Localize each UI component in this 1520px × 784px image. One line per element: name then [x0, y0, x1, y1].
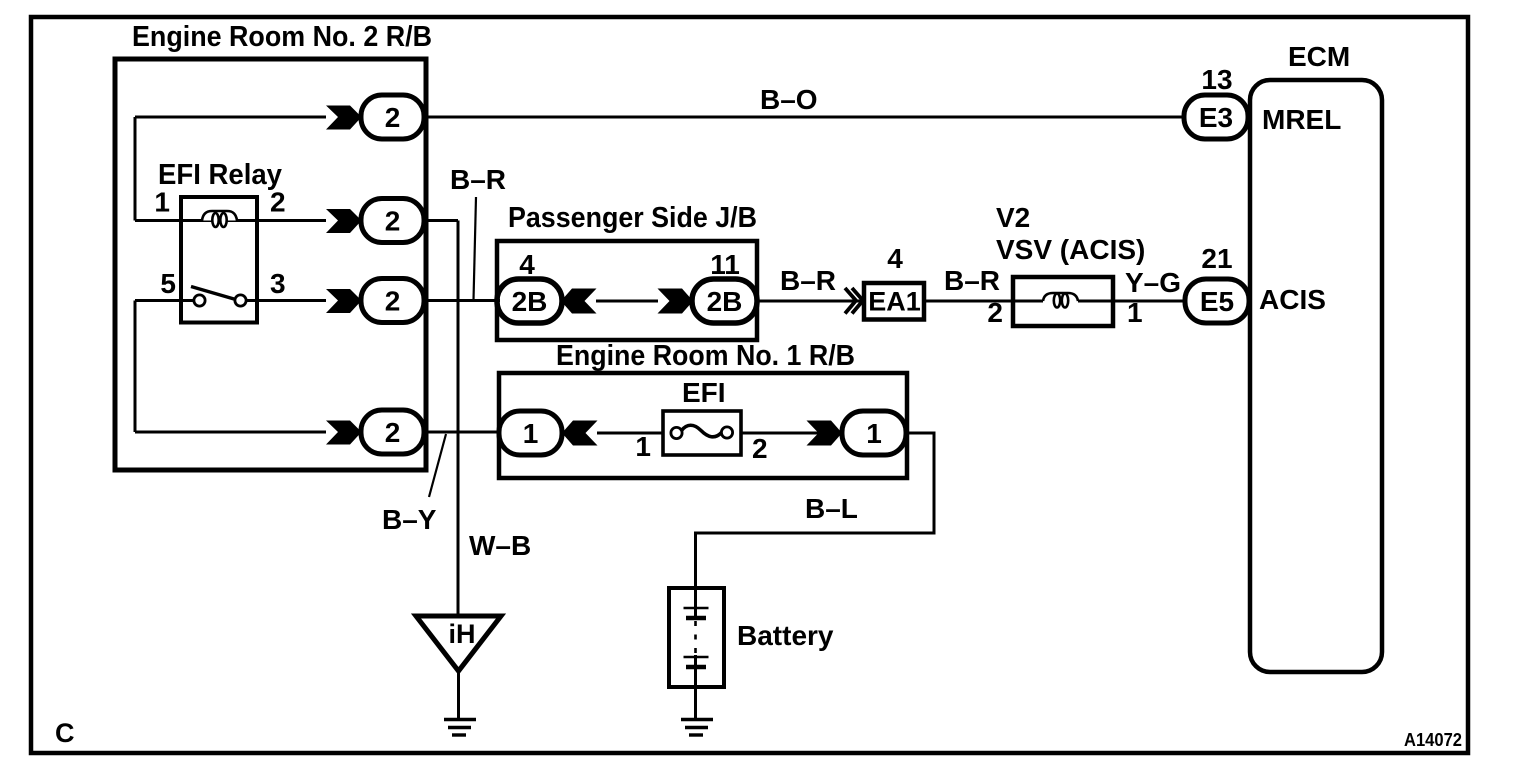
wire: row3 relay to connector — [257, 299, 326, 302]
VSV coil symbol — [1043, 293, 1078, 308]
svg-text:B–Y: B–Y — [382, 504, 437, 535]
wire: relay coil wire pin1-pin2 — [181, 219, 257, 222]
battery plate long bottom — [684, 656, 709, 659]
wire: triangle to ground — [457, 671, 460, 719]
connector arrow right (pointing right) — [658, 289, 694, 314]
battery dashed center link — [694, 621, 697, 654]
svg-text:iH: iH — [449, 619, 476, 649]
svg-text:Battery: Battery — [737, 620, 834, 651]
connector arrow row4 — [326, 421, 362, 445]
svg-text:B–O: B–O — [760, 84, 818, 115]
svg-text:2B: 2B — [707, 286, 743, 317]
relay coil symbol — [202, 211, 237, 227]
svg-text:V2: V2 — [996, 202, 1030, 233]
svg-text:Passenger Side J/B: Passenger Side J/B — [508, 202, 757, 234]
connector arrow right (pointing right) — [807, 421, 843, 446]
connector oval row1 pin 2 — [361, 95, 424, 139]
wire: relay pin5 stub inside — [181, 299, 194, 302]
wire: B-L net from oval 1 to battery — [696, 433, 935, 587]
wire: arrow to fuse — [597, 432, 663, 435]
battery plate long top — [684, 607, 709, 610]
relay U: EFI Relay box — [181, 197, 257, 323]
splice EA1 box — [864, 283, 924, 320]
wire: vertical from relay pin5 row to row4 — [134, 301, 137, 433]
svg-text:E3: E3 — [1199, 102, 1233, 133]
wire: row1 left segment inside R/B — [135, 116, 326, 119]
fuse EFI box — [663, 411, 741, 455]
svg-text:B–L: B–L — [805, 493, 858, 524]
battery bottom lead to ground — [694, 655, 697, 719]
connector oval row2 pin 2 — [361, 199, 424, 243]
relay switch blade — [191, 287, 234, 300]
svg-text:A14072: A14072 — [1404, 730, 1462, 750]
connector arrow row3 — [326, 289, 362, 313]
wire: row4 left segment — [135, 431, 326, 434]
svg-text:2: 2 — [270, 187, 286, 218]
svg-text:W–B: W–B — [469, 530, 531, 561]
svg-text:2B: 2B — [512, 286, 548, 317]
wire: vertical from row1 to relay pin1 — [134, 117, 137, 221]
junction block: Engine Room No. 2 R/B box — [115, 59, 426, 470]
ground symbol below battery — [681, 720, 713, 736]
connector oval 2B right — [692, 279, 757, 323]
battery plate thick lower — [686, 665, 706, 670]
wire: VSV internal right — [1078, 300, 1113, 303]
svg-text:11: 11 — [710, 249, 740, 280]
connector oval 2B left — [497, 279, 562, 323]
svg-text:5: 5 — [160, 268, 176, 299]
svg-text:Y–G: Y–G — [1125, 267, 1181, 298]
wire: row2 relay to connector — [257, 219, 326, 222]
connector oval E3 — [1184, 95, 1248, 139]
leader line for B-Y label — [429, 434, 446, 497]
wire: VSV internal left — [1013, 300, 1043, 303]
svg-text:B–R: B–R — [780, 265, 836, 296]
fuse element symbol — [671, 427, 682, 438]
svg-text:ACIS: ACIS — [1259, 284, 1326, 315]
svg-text:21: 21 — [1201, 243, 1232, 274]
svg-text:2: 2 — [385, 417, 401, 448]
svg-text:B–R: B–R — [944, 265, 1000, 296]
wire: EA1 to VSV — [924, 300, 1013, 303]
relay switch contact left — [194, 295, 205, 306]
wire: row3 oval to Passenger J/B — [424, 299, 500, 302]
svg-text:4: 4 — [887, 243, 903, 274]
svg-text:2: 2 — [752, 433, 768, 464]
solenoid valve V2 VSV (ACIS) box — [1013, 277, 1113, 326]
relay switch contact right — [235, 295, 246, 306]
junction block: Passenger Side J/B box — [497, 241, 757, 340]
connector oval row3 pin 2 — [361, 279, 424, 323]
leader line for B-R label — [474, 197, 477, 300]
svg-text:4: 4 — [519, 249, 535, 280]
wire: 2B to EA1 — [757, 300, 864, 303]
wire: relay pin1 feed — [135, 219, 181, 222]
wire: fuse to arrow — [741, 432, 842, 435]
svg-text:Engine Room No. 2 R/B: Engine Room No. 2 R/B — [132, 21, 432, 53]
wire: VSV to E5 — [1113, 300, 1186, 303]
ECM block rounded box — [1250, 80, 1382, 672]
svg-text:1: 1 — [635, 431, 651, 462]
svg-text:2: 2 — [385, 102, 401, 133]
svg-text:1: 1 — [866, 418, 882, 449]
connector oval 1 left — [499, 411, 562, 455]
svg-text:1: 1 — [523, 418, 539, 449]
wire: row4 oval to Engine Room No.1 R/B — [424, 431, 500, 434]
battery box — [669, 588, 724, 687]
svg-text:MREL: MREL — [1262, 104, 1341, 135]
battery internal: top lead — [694, 588, 697, 618]
wire: W-B vertical down to ground triangle — [457, 221, 460, 617]
wire: between 2B connectors — [596, 300, 658, 303]
svg-text:EFI Relay: EFI Relay — [158, 159, 282, 191]
connector oval row4 pin 2 — [361, 410, 424, 454]
connector arrow left (pointing left) — [561, 289, 597, 314]
wire: relay pin3 stub inside — [246, 299, 257, 302]
wire: B-O net row1 to ECM E3 — [424, 116, 1185, 119]
splice chevron >> — [845, 288, 863, 314]
svg-text:C: C — [55, 718, 75, 748]
svg-text:2: 2 — [987, 297, 1003, 328]
svg-text:ECM: ECM — [1288, 41, 1350, 72]
svg-text:B–R: B–R — [450, 164, 506, 195]
connector arrow row1 — [326, 106, 362, 130]
connector arrow left (pointing left) — [562, 421, 598, 446]
junction block: Engine Room No. 1 R/B box — [499, 373, 907, 478]
svg-text:13: 13 — [1201, 64, 1232, 95]
wire: relay pin5 feed — [135, 299, 181, 302]
svg-text:2: 2 — [385, 286, 401, 317]
ground symbol below triangle — [444, 720, 476, 736]
svg-text:EFI: EFI — [682, 377, 726, 408]
svg-text:1: 1 — [154, 187, 170, 218]
connector arrow row2 — [326, 209, 362, 233]
svg-text:Engine Room No. 1 R/B: Engine Room No. 1 R/B — [556, 340, 855, 372]
connector oval E5 — [1185, 279, 1249, 323]
svg-text:2: 2 — [385, 206, 401, 237]
wire: row2 oval to W-B vertical — [424, 219, 458, 222]
connector oval 1 right — [842, 411, 906, 455]
svg-text:3: 3 — [270, 268, 286, 299]
svg-text:EA1: EA1 — [868, 287, 921, 317]
battery plate thick upper — [686, 616, 706, 621]
svg-text:VSV (ACIS): VSV (ACIS) — [996, 234, 1145, 265]
svg-text:E5: E5 — [1200, 286, 1234, 317]
ground triangle iH — [416, 616, 501, 671]
